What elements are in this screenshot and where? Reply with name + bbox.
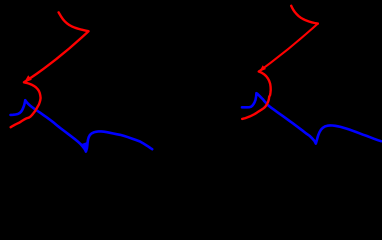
right blue wavefront curve xyxy=(242,93,381,143)
right red wavefront: upper branch into first cusp xyxy=(291,6,318,24)
right red wavefront: lower loop branch xyxy=(242,72,271,119)
left blue wavefront curve xyxy=(11,100,153,151)
right red wavefront: middle branch between cusps xyxy=(259,24,318,72)
left blue arrowhead at bottom cusp xyxy=(80,142,89,153)
left red arrowhead at lower cusp xyxy=(24,75,32,83)
left red wavefront curve xyxy=(11,12,89,127)
right red arrowhead at lower cusp xyxy=(259,65,266,72)
